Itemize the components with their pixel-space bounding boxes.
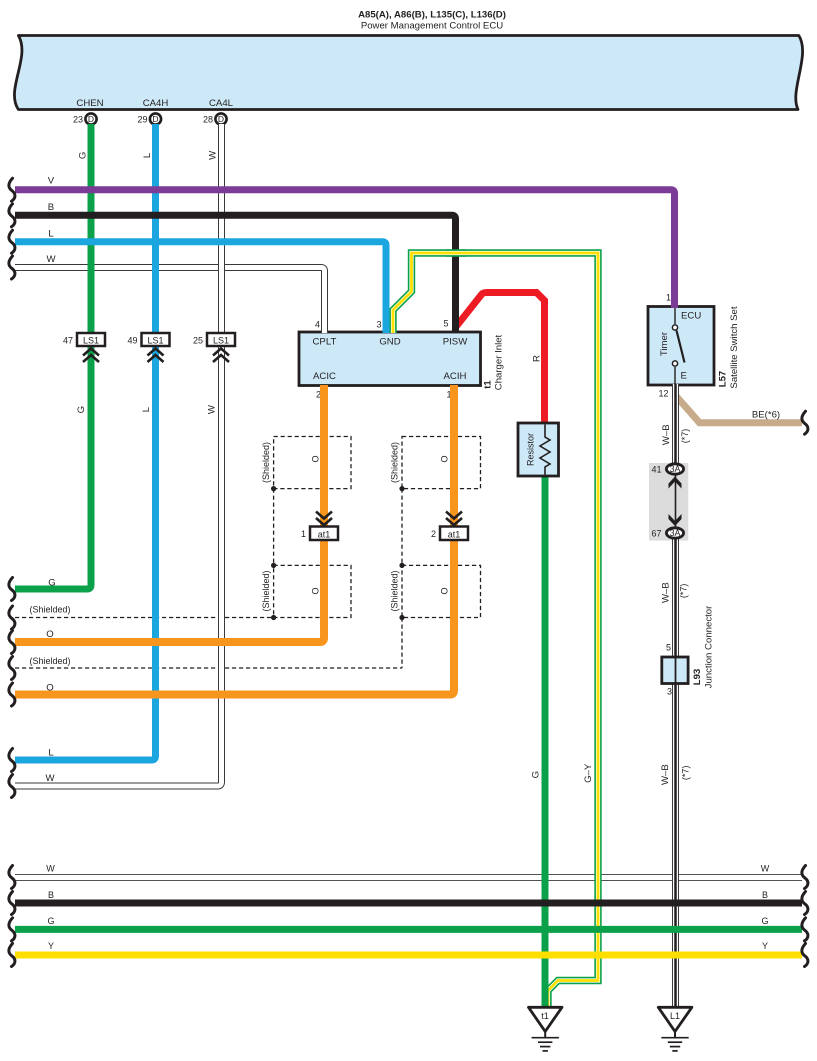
svg-text:Y: Y: [762, 941, 768, 951]
svg-text:G–Y: G–Y: [583, 763, 594, 783]
svg-text:(Shielded): (Shielded): [261, 570, 271, 611]
svg-text:O: O: [311, 587, 321, 594]
svg-text:29: 29: [137, 115, 147, 125]
svg-text:41: 41: [651, 465, 661, 475]
svg-text:(*7): (*7): [680, 429, 690, 444]
svg-text:(*7): (*7): [679, 584, 689, 599]
svg-text:(Shielded): (Shielded): [261, 442, 271, 483]
svg-text:49: 49: [127, 336, 137, 346]
svg-text:at1: at1: [448, 530, 461, 540]
svg-text:O: O: [440, 587, 450, 594]
svg-text:W–B: W–B: [661, 582, 672, 603]
svg-text:A85(A), A86(B), L135(C), L136(: A85(A), A86(B), L135(C), L136(D): [358, 10, 506, 21]
svg-text:(*7): (*7): [681, 766, 691, 781]
svg-text:L93: L93: [692, 669, 703, 686]
svg-text:L: L: [48, 748, 54, 759]
svg-text:LS1: LS1: [83, 336, 99, 346]
svg-text:5: 5: [666, 643, 671, 653]
svg-text:D: D: [88, 114, 94, 124]
svg-text:3: 3: [376, 320, 381, 330]
svg-text:ACIC: ACIC: [313, 371, 336, 382]
svg-text:L57: L57: [718, 371, 729, 388]
svg-text:O: O: [46, 683, 53, 694]
svg-text:PISW: PISW: [443, 337, 468, 348]
svg-text:4: 4: [315, 320, 320, 330]
svg-text:Charger Inlet: Charger Inlet: [494, 334, 505, 390]
svg-text:CHEN: CHEN: [76, 98, 103, 109]
svg-text:(Shielded): (Shielded): [390, 570, 400, 611]
svg-text:W: W: [761, 864, 770, 874]
svg-text:G: G: [76, 406, 87, 413]
svg-text:W: W: [46, 254, 56, 265]
svg-text:1: 1: [301, 529, 306, 539]
svg-text:W–B: W–B: [660, 764, 671, 785]
svg-text:Satellite Switch Set: Satellite Switch Set: [729, 306, 740, 388]
svg-text:W–B: W–B: [661, 424, 672, 445]
svg-text:W: W: [207, 404, 218, 414]
svg-text:5: 5: [443, 319, 448, 329]
svg-text:G: G: [761, 916, 768, 926]
svg-text:at1: at1: [318, 530, 331, 540]
svg-text:(Shielded): (Shielded): [29, 656, 70, 666]
svg-text:V: V: [48, 176, 55, 187]
svg-text:G: G: [78, 152, 89, 159]
svg-text:25: 25: [193, 336, 203, 346]
svg-text:23: 23: [73, 115, 83, 125]
svg-text:67: 67: [651, 529, 661, 539]
svg-text:W: W: [208, 150, 219, 160]
svg-text:E: E: [681, 371, 687, 382]
svg-text:D: D: [218, 114, 224, 124]
svg-text:ECU: ECU: [681, 311, 701, 322]
svg-text:L: L: [142, 152, 153, 158]
svg-text:CA4H: CA4H: [143, 98, 169, 109]
svg-text:O: O: [440, 455, 450, 462]
svg-text:47: 47: [63, 336, 73, 346]
svg-text:3A: 3A: [670, 528, 681, 538]
svg-text:L: L: [48, 229, 54, 240]
svg-text:Timer: Timer: [659, 331, 670, 356]
svg-text:Y: Y: [48, 941, 54, 951]
svg-text:L: L: [141, 406, 152, 412]
svg-text:CA4L: CA4L: [209, 98, 234, 109]
svg-text:LS1: LS1: [147, 336, 163, 346]
svg-text:12: 12: [658, 389, 668, 399]
svg-text:t1: t1: [483, 380, 494, 389]
svg-text:W: W: [45, 773, 55, 784]
svg-text:2: 2: [431, 529, 436, 539]
svg-text:Junction Connector: Junction Connector: [704, 605, 715, 688]
svg-text:(Shielded): (Shielded): [390, 442, 400, 483]
svg-text:CPLT: CPLT: [313, 337, 337, 348]
svg-text:B: B: [762, 890, 768, 900]
svg-text:BE(*6): BE(*6): [752, 410, 780, 421]
svg-text:Power Management Control ECU: Power Management Control ECU: [361, 21, 503, 32]
svg-text:O: O: [311, 455, 321, 462]
svg-text:B: B: [48, 202, 54, 213]
svg-text:G: G: [48, 578, 55, 589]
svg-text:1: 1: [666, 293, 671, 303]
svg-text:3A: 3A: [670, 464, 681, 474]
svg-text:B: B: [48, 890, 54, 900]
svg-text:3: 3: [667, 687, 672, 697]
svg-text:28: 28: [203, 115, 213, 125]
svg-text:(Shielded): (Shielded): [29, 605, 70, 615]
svg-text:ACIH: ACIH: [444, 371, 467, 382]
svg-text:W: W: [46, 864, 55, 874]
svg-text:t1: t1: [541, 1011, 549, 1021]
svg-text:G: G: [47, 916, 54, 926]
svg-text:O: O: [46, 629, 53, 640]
svg-text:LS1: LS1: [213, 336, 229, 346]
svg-text:L1: L1: [670, 1011, 680, 1021]
svg-text:D: D: [152, 114, 158, 124]
svg-text:G: G: [531, 771, 542, 778]
svg-text:R: R: [532, 355, 543, 362]
svg-text:Resistor: Resistor: [526, 433, 536, 466]
svg-text:GND: GND: [379, 337, 400, 348]
